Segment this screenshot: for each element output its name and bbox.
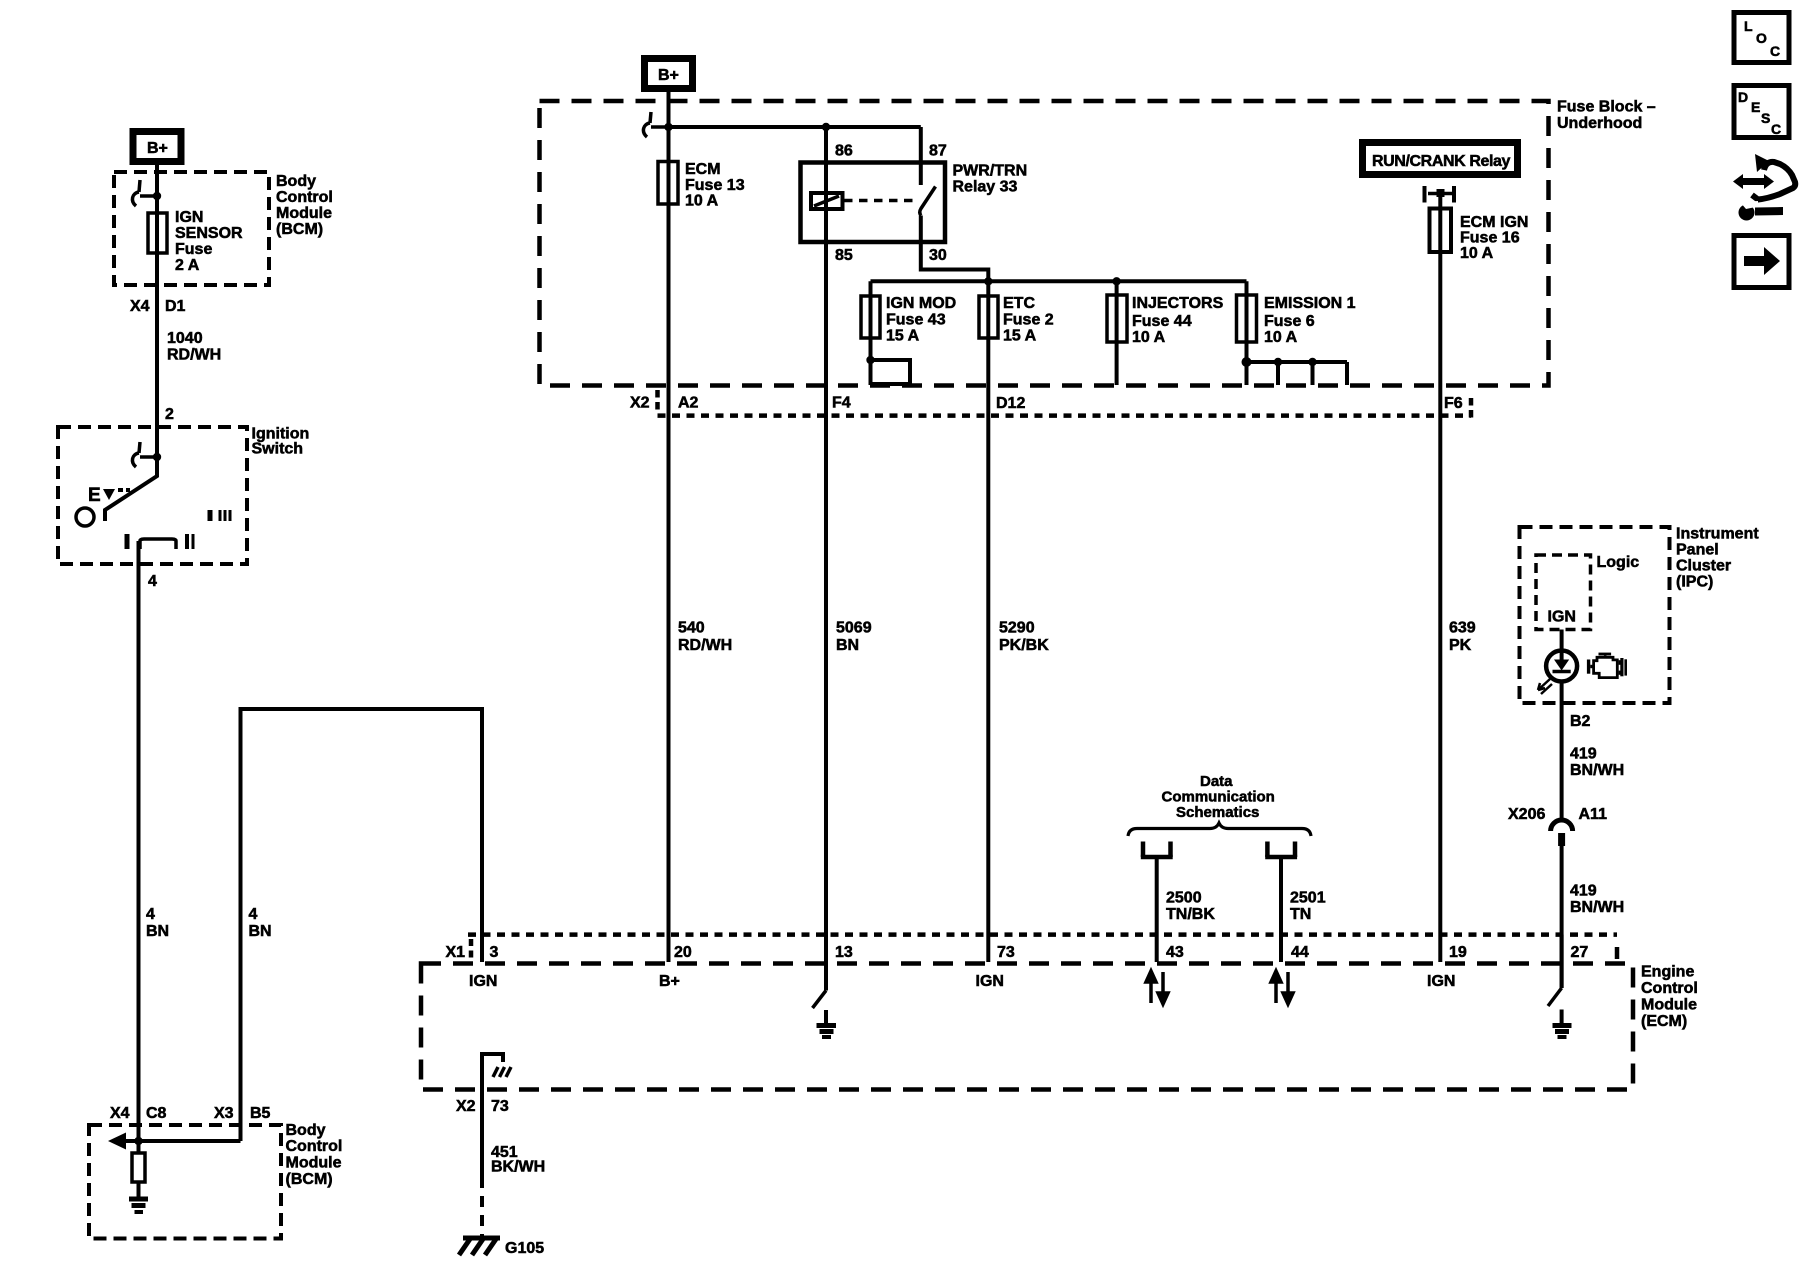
svg-text:B+: B+: [659, 973, 680, 990]
svg-text:Control: Control: [276, 189, 333, 206]
svg-text:X4: X4: [110, 1105, 130, 1122]
svg-text:Schematics: Schematics: [1176, 804, 1259, 821]
svg-text:C: C: [1771, 121, 1781, 137]
wire LED down through IPC edge: [1560, 682, 1564, 821]
connector clip symbol in BCM: [132, 180, 155, 206]
svg-text:2 A: 2 A: [175, 257, 200, 274]
switch contact circle: [76, 508, 94, 526]
wire B+ down: [667, 89, 671, 162]
svg-text:X4: X4: [130, 298, 150, 315]
svg-text:419: 419: [1570, 883, 1597, 900]
wire B+ to IGN SENSOR fuse: [155, 165, 159, 253]
svg-text:540: 540: [678, 620, 705, 637]
svg-text:O: O: [1756, 30, 1767, 46]
svg-text:Fuse 2: Fuse 2: [1003, 312, 1054, 329]
svg-text:A2: A2: [678, 395, 699, 412]
relay dashed link: [844, 199, 917, 203]
wire 451 BK/WH: [491, 1144, 545, 1176]
svg-text:Fuse 6: Fuse 6: [1264, 313, 1315, 330]
svg-text:IGN: IGN: [469, 973, 497, 990]
jumper loop below fuse 43: [871, 360, 911, 384]
svg-text:10 A: 10 A: [1264, 329, 1298, 346]
svg-text:4: 4: [249, 906, 258, 923]
junction dot below fuse 43: [866, 356, 874, 364]
svg-text:Instrument: Instrument: [1676, 526, 1759, 543]
svg-text:Fuse 13: Fuse 13: [685, 177, 745, 194]
svg-text:BK/WH: BK/WH: [491, 1159, 545, 1176]
wire logic to LED: [1560, 630, 1564, 661]
junction dot pin 86: [822, 123, 830, 131]
svg-text:5069: 5069: [836, 620, 872, 637]
data connector symbol right: [1265, 842, 1297, 858]
svg-text:C8: C8: [146, 1105, 167, 1122]
svg-text:ECM IGN: ECM IGN: [1460, 214, 1528, 231]
pin 27 internal switch to ground: [1560, 935, 1564, 988]
svg-text:(IPC): (IPC): [1676, 574, 1713, 591]
svg-text:(BCM): (BCM): [276, 221, 323, 238]
junction dot at B+ tap: [664, 123, 672, 131]
double arrow and wrench icon: [1733, 154, 1795, 221]
F6 tick: [1469, 398, 1474, 420]
svg-text:BN: BN: [249, 923, 272, 940]
svg-text:15 A: 15 A: [1003, 328, 1037, 345]
svg-text:B2: B2: [1570, 713, 1591, 730]
LOC icon box: [1734, 13, 1789, 63]
svg-text:10 A: 10 A: [1460, 245, 1494, 262]
svg-text:Relay 33: Relay 33: [953, 179, 1018, 196]
position marks I III: [210, 510, 230, 521]
svg-text:IGN: IGN: [1548, 609, 1576, 626]
svg-text:639: 639: [1449, 620, 1476, 637]
svg-text:(BCM): (BCM): [286, 1171, 333, 1188]
engine icon (MIL): [1587, 653, 1626, 678]
svg-text:Fuse: Fuse: [175, 241, 212, 258]
svg-text:BN/WH: BN/WH: [1570, 899, 1624, 916]
svg-text:E: E: [88, 485, 101, 506]
svg-text:85: 85: [835, 247, 853, 264]
key position marker E: [88, 485, 130, 506]
svg-text:Fuse Block –: Fuse Block –: [1557, 99, 1656, 116]
svg-text:Module: Module: [1641, 997, 1697, 1014]
svg-text:X206: X206: [1508, 806, 1545, 823]
svg-text:1040: 1040: [167, 330, 203, 347]
junction dot at ETC tap: [984, 277, 992, 285]
wire 4 BN from ignition switch: [137, 541, 141, 1141]
label Body Control Module (BCM): [276, 173, 333, 238]
svg-text:RD/WH: RD/WH: [167, 347, 221, 364]
svg-text:Data: Data: [1200, 773, 1233, 790]
svg-text:D1: D1: [165, 298, 186, 315]
svg-text:73: 73: [997, 944, 1015, 961]
junction dot at INJECTORS tap: [1112, 277, 1120, 285]
svg-text:B+: B+: [147, 140, 168, 157]
svg-text:10 A: 10 A: [1132, 329, 1166, 346]
svg-text:TN/BK: TN/BK: [1166, 906, 1215, 923]
svg-text:4: 4: [148, 573, 157, 590]
svg-text:PK/BK: PK/BK: [999, 637, 1049, 654]
svg-text:20: 20: [674, 944, 692, 961]
B+ power symbol (center): [645, 59, 693, 89]
svg-text:Body: Body: [276, 173, 316, 190]
svg-text:Fuse 16: Fuse 16: [1460, 230, 1520, 247]
wire to ECM IGN fuse: [1438, 194, 1442, 963]
wire 2501 TN: [1279, 857, 1283, 962]
lightning arrow on LED: [1538, 679, 1552, 694]
svg-text:19: 19: [1449, 944, 1467, 961]
logic dashed box: [1536, 555, 1591, 630]
svg-text:2500: 2500: [1166, 890, 1202, 907]
svg-text:43: 43: [1166, 944, 1184, 961]
svg-text:D12: D12: [996, 395, 1025, 412]
svg-text:2: 2: [165, 406, 174, 423]
svg-text:ETC: ETC: [1003, 295, 1035, 312]
svg-text:B+: B+: [658, 67, 679, 84]
relay coil: [811, 193, 843, 209]
svg-text:Module: Module: [276, 205, 332, 222]
svg-text:(ECM): (ECM): [1641, 1013, 1687, 1030]
svg-text:73: 73: [491, 1098, 509, 1115]
svg-text:D: D: [1738, 89, 1748, 105]
svg-text:IGN: IGN: [976, 973, 1004, 990]
svg-text:Logic: Logic: [1597, 554, 1640, 571]
RUN/CRANK Relay bold box: [1363, 143, 1518, 175]
wire 540 RD/WH: [667, 162, 671, 963]
fuse block underhood dashed box: [540, 101, 1549, 386]
internal wire with arrow: [122, 1139, 241, 1143]
wire pin 85 down: [824, 209, 828, 991]
svg-text:3: 3: [490, 944, 499, 961]
svg-text:X1: X1: [446, 944, 466, 961]
DESC icon box: [1734, 86, 1789, 138]
svg-text:IGN: IGN: [175, 209, 203, 226]
svg-text:Engine: Engine: [1641, 964, 1694, 981]
svg-text:Control: Control: [1641, 980, 1698, 997]
svg-text:SENSOR: SENSOR: [175, 225, 243, 242]
X1 tick: [469, 939, 474, 960]
fuse INJECTORS Fuse 44: [1115, 281, 1119, 385]
fuse IGN SENSOR 2A: [148, 213, 167, 253]
data connector symbol left: [1141, 842, 1173, 858]
svg-text:F6: F6: [1444, 395, 1463, 412]
svg-text:BN: BN: [146, 923, 169, 940]
svg-text:Fuse 43: Fuse 43: [886, 312, 946, 329]
ignition switch dashed box: [58, 427, 247, 564]
svg-text:G105: G105: [505, 1240, 544, 1257]
serial data arrows pin 44: [1271, 971, 1293, 1004]
wire 419 BN/WH lower: [1560, 846, 1564, 988]
svg-text:4: 4: [146, 906, 155, 923]
IPC dashed box: [1520, 527, 1670, 703]
junction dot: [153, 192, 161, 200]
svg-text:Module: Module: [286, 1155, 342, 1172]
svg-text:Cluster: Cluster: [1676, 558, 1731, 575]
wire pin 30 to bus: [921, 216, 989, 282]
svg-text:5290: 5290: [999, 620, 1035, 637]
dotted connector line: [658, 413, 1472, 418]
svg-text:419: 419: [1570, 746, 1597, 763]
svg-text:TN: TN: [1290, 906, 1311, 923]
svg-text:F4: F4: [832, 395, 851, 412]
pin 13 internal switch to ground: [813, 991, 827, 1009]
label Body Control Module (BCM) bottom: [286, 1122, 343, 1188]
svg-text:Panel: Panel: [1676, 542, 1719, 559]
junction dot: [153, 453, 161, 461]
svg-text:INJECTORS: INJECTORS: [1132, 295, 1224, 312]
horizontal fuse bus: [871, 279, 1247, 283]
svg-text:PK: PK: [1449, 637, 1472, 654]
svg-text:RUN/CRANK Relay: RUN/CRANK Relay: [1372, 153, 1511, 170]
svg-text:X2: X2: [456, 1098, 476, 1115]
svg-text:B5: B5: [250, 1105, 271, 1122]
position marks I - II: [127, 534, 193, 549]
wire to relay pins 86/87: [669, 125, 921, 129]
svg-text:S: S: [1761, 110, 1770, 126]
X1 dotted connector line: [468, 932, 1617, 937]
fuse ECM Fuse 13: [658, 162, 678, 205]
LED indicator circle: [1546, 651, 1577, 682]
svg-text:IGN: IGN: [1427, 973, 1455, 990]
svg-text:13: 13: [835, 944, 853, 961]
relay output connector symbol: [1425, 186, 1455, 203]
svg-text:27: 27: [1571, 944, 1589, 961]
svg-text:Fuse 44: Fuse 44: [1132, 313, 1192, 330]
connector clip symbol at switch pin 2: [132, 442, 155, 467]
svg-text:EMISSION 1: EMISSION 1: [1264, 295, 1356, 312]
svg-text:C: C: [1770, 43, 1780, 59]
fuse ECM IGN Fuse 16: [1430, 209, 1452, 253]
wire 1040 RD/WH: [155, 253, 159, 476]
serial data arrows pin 43: [1146, 971, 1168, 1004]
svg-text:E: E: [1751, 99, 1760, 115]
svg-text:X2: X2: [630, 395, 650, 412]
relay switch blade: [920, 187, 936, 216]
internal ground wire to X2-73: [482, 1054, 503, 1177]
svg-text:RD/WH: RD/WH: [678, 637, 732, 654]
X2 tick: [655, 390, 660, 412]
resistor inside BCM: [137, 1141, 141, 1153]
svg-text:2501: 2501: [1290, 890, 1326, 907]
forward arrow icon box: [1734, 236, 1789, 288]
loop wire BCM B5 to ECM pin 3: [241, 709, 483, 1141]
body control module (BCM) bottom dashed box: [89, 1125, 281, 1239]
ECM dashed box: [421, 964, 1633, 1090]
svg-text:X3: X3: [214, 1105, 234, 1122]
arrow head pointing left: [108, 1133, 126, 1150]
svg-text:44: 44: [1291, 944, 1309, 961]
wire pin 87 down into relay: [919, 127, 923, 185]
wire 2500 TN/BK: [1155, 857, 1159, 962]
svg-text:Underhood: Underhood: [1557, 115, 1642, 132]
svg-text:Body: Body: [286, 1122, 326, 1139]
output bar below fuse 6: [1245, 342, 1249, 385]
fuse ETC Fuse 2: [986, 281, 990, 962]
fuse EMISSION 1 Fuse 6: [1245, 281, 1249, 362]
svg-text:87: 87: [929, 143, 947, 160]
svg-text:Control: Control: [286, 1138, 343, 1155]
svg-text:PWR/TRN: PWR/TRN: [953, 163, 1028, 180]
svg-text:ECM: ECM: [685, 161, 721, 178]
svg-text:BN/WH: BN/WH: [1570, 762, 1624, 779]
mini chassis ground symbol: [493, 1067, 511, 1077]
wire 419 BN/WH upper: [1570, 746, 1624, 780]
wire 639 PK: [1449, 620, 1476, 655]
svg-text:A11: A11: [1579, 806, 1608, 823]
svg-text:L: L: [1744, 18, 1753, 34]
brace: [1128, 823, 1311, 836]
svg-text:30: 30: [929, 247, 947, 264]
svg-text:IGN MOD: IGN MOD: [886, 295, 956, 312]
B+ power symbol (left): [133, 132, 181, 162]
body control module (BCM) top dashed box: [114, 172, 269, 285]
svg-text:BN: BN: [836, 637, 859, 654]
G105 chassis ground: [459, 1238, 500, 1255]
fuse IGN MOD Fuse 43: [869, 281, 873, 385]
svg-text:Communication: Communication: [1162, 789, 1275, 806]
svg-text:86: 86: [835, 143, 853, 160]
wire 5069 BN: [836, 620, 872, 655]
connector clip symbol on B+ wire: [643, 112, 666, 137]
svg-text:Switch: Switch: [252, 441, 304, 458]
wire pin 86 down into relay: [824, 127, 828, 209]
ground symbol in BCM: [129, 1199, 148, 1212]
wire 5290 PK/BK: [999, 620, 1049, 655]
switch blade wire: [105, 457, 157, 521]
svg-text:15 A: 15 A: [886, 328, 920, 345]
junction dot: [134, 1137, 142, 1145]
PWR/TRN Relay 33 box: [801, 163, 946, 243]
dashed wire to G105: [480, 1177, 484, 1236]
svg-text:10 A: 10 A: [685, 193, 719, 210]
right end tick: [1615, 947, 1620, 959]
